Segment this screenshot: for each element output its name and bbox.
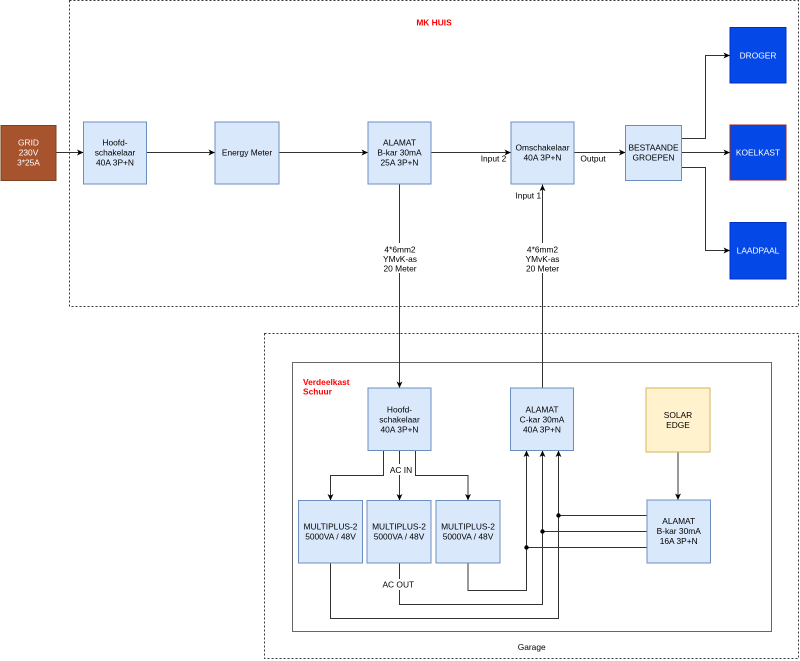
- svg-text:MULTIPLUS-2: MULTIPLUS-2: [441, 522, 495, 532]
- svg-text:C-kar 30mA: C-kar 30mA: [520, 414, 565, 424]
- svg-text:20 Meter: 20 Meter: [383, 264, 416, 274]
- svg-text:MULTIPLUS-2: MULTIPLUS-2: [372, 522, 426, 532]
- svg-text:ALAMAT: ALAMAT: [526, 404, 559, 414]
- svg-text:GRID: GRID: [18, 138, 39, 148]
- svg-text:3*25A: 3*25A: [17, 158, 40, 168]
- svg-text:5000VA / 48V: 5000VA / 48V: [374, 532, 425, 542]
- svg-text:B-kar 30mA: B-kar 30mA: [657, 526, 702, 536]
- svg-text:AC IN: AC IN: [390, 465, 412, 475]
- svg-text:Input 2: Input 2: [481, 154, 507, 164]
- svg-text:25A 3P+N: 25A 3P+N: [381, 157, 419, 167]
- svg-text:Omschakelaar: Omschakelaar: [516, 142, 570, 152]
- svg-text:Schuur: Schuur: [303, 387, 333, 397]
- svg-text:40A 3P+N: 40A 3P+N: [381, 424, 419, 434]
- svg-text:AC OUT: AC OUT: [382, 580, 414, 590]
- svg-text:5000VA / 48V: 5000VA / 48V: [305, 532, 356, 542]
- svg-text:ALAMAT: ALAMAT: [383, 137, 416, 147]
- svg-text:KOELKAST: KOELKAST: [736, 148, 780, 158]
- svg-text:Hoofd-: Hoofd-: [387, 404, 412, 414]
- svg-text:LAADPAAL: LAADPAAL: [737, 246, 780, 256]
- svg-text:Garage: Garage: [518, 642, 546, 652]
- svg-text:Energy Meter: Energy Meter: [222, 147, 272, 157]
- svg-text:YMvK-as: YMvK-as: [526, 254, 560, 264]
- svg-text:40A 3P+N: 40A 3P+N: [523, 424, 561, 434]
- svg-text:ALAMAT: ALAMAT: [662, 516, 695, 526]
- svg-text:GROEPEN: GROEPEN: [633, 152, 675, 162]
- svg-text:EDGE: EDGE: [666, 420, 690, 430]
- svg-text:schakelaar: schakelaar: [379, 414, 420, 424]
- svg-text:5000VA / 48V: 5000VA / 48V: [443, 532, 494, 542]
- svg-text:Verdeelkast: Verdeelkast: [303, 377, 350, 387]
- svg-text:SOLAR: SOLAR: [664, 410, 692, 420]
- svg-text:230V: 230V: [19, 148, 39, 158]
- svg-text:MK HUIS: MK HUIS: [416, 18, 452, 28]
- svg-text:B-kar 30mA: B-kar 30mA: [377, 147, 422, 157]
- svg-text:BESTAANDE: BESTAANDE: [628, 142, 679, 152]
- svg-text:schakelaar: schakelaar: [95, 147, 136, 157]
- svg-text:40A 3P+N: 40A 3P+N: [96, 157, 134, 167]
- svg-text:20 Meter: 20 Meter: [526, 264, 559, 274]
- svg-text:DROGER: DROGER: [740, 51, 777, 61]
- svg-text:16A 3P+N: 16A 3P+N: [660, 536, 698, 546]
- svg-text:40A 3P+N: 40A 3P+N: [524, 152, 562, 162]
- svg-text:YMvK-as: YMvK-as: [383, 254, 417, 264]
- svg-text:Output: Output: [580, 154, 606, 164]
- svg-text:MULTIPLUS-2: MULTIPLUS-2: [304, 522, 358, 532]
- svg-text:Input 1: Input 1: [515, 191, 541, 201]
- svg-text:Hoofd-: Hoofd-: [102, 137, 127, 147]
- svg-text:4*6mm2: 4*6mm2: [384, 245, 416, 255]
- svg-text:4*6mm2: 4*6mm2: [527, 245, 559, 255]
